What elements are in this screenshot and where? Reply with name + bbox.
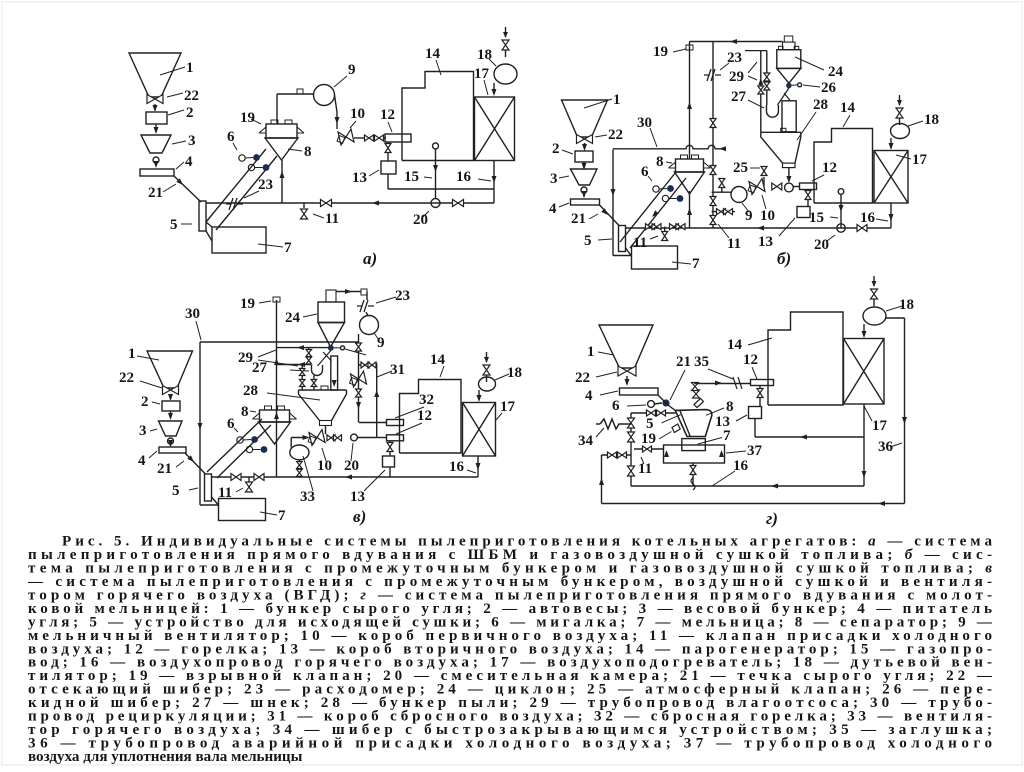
- flange (v): [361, 289, 367, 295]
- vesovoy bunker 3 (v): [159, 421, 183, 436]
- bila 19 flap (g): [672, 424, 680, 433]
- leader 28 (v): [267, 393, 320, 400]
- leader 8 (g): [706, 408, 724, 415]
- stub valve (b): [721, 188, 723, 192]
- leader 21 (g): [670, 370, 685, 400]
- stub 25 (b): [763, 177, 765, 187]
- parogenerator 14 (v): [400, 380, 462, 454]
- leader 21 (b): [589, 214, 598, 219]
- wire fan->36 (g): [885, 317, 905, 319]
- svg-text:2: 2: [552, 141, 560, 157]
- svg-text:19: 19: [653, 44, 668, 60]
- stub left (g): [602, 454, 632, 456]
- wire to 13 (v): [389, 451, 391, 456]
- separator 8 (a): [259, 120, 304, 160]
- leader 36 (g): [890, 443, 902, 447]
- leader 11 (g): [641, 457, 644, 464]
- arrow into 4 (a): [154, 161, 159, 168]
- svg-text:34: 34: [578, 433, 594, 449]
- valve bottom a (v): [231, 474, 241, 481]
- leader 30 (b): [650, 128, 657, 147]
- svg-text:8: 8: [304, 144, 312, 160]
- leader 13 (v): [364, 470, 385, 491]
- leader 10 (v): [322, 448, 326, 461]
- arrow up on sep drop (a): [280, 171, 285, 178]
- svg-text:20: 20: [413, 212, 428, 228]
- drop V3 shnek->bunker (v): [313, 376, 315, 391]
- tab left on 24 (b): [779, 46, 784, 49]
- bunker 28 right (v): [332, 390, 347, 421]
- valve on 33 stem a (v): [297, 462, 303, 469]
- wire shahta to separator right (a): [216, 156, 277, 230]
- arrow left sec air (g): [800, 435, 807, 440]
- svg-text:а): а): [363, 249, 377, 268]
- tsiklon 24 body (b): [777, 50, 801, 69]
- valve manifold 3 (g): [628, 466, 635, 476]
- svg-text:25: 25: [733, 160, 748, 176]
- tab right on 24 (b): [794, 46, 799, 49]
- svg-text:36: 36: [878, 439, 894, 455]
- svg-text:21: 21: [148, 185, 163, 201]
- leader 5 (b): [598, 239, 612, 240]
- bunker pyli 28 top (b): [761, 131, 801, 133]
- small valve pair a-2 (a): [375, 135, 384, 141]
- valve pair m2 (g): [657, 410, 666, 416]
- svg-text:8: 8: [656, 154, 664, 170]
- valve on sbros (v): [356, 343, 362, 351]
- wire to 13 (b): [807, 199, 809, 206]
- svg-text:18: 18: [924, 112, 939, 128]
- leader 3 (v): [150, 429, 157, 431]
- bunker 28 left (v): [299, 390, 320, 421]
- gazoprovod 15 (b): [840, 194, 842, 228]
- arrow right into 10 (v): [303, 435, 310, 440]
- ventilyator 9 (v): [360, 316, 379, 335]
- tsiklon 24 body (v): [318, 302, 345, 323]
- valve manifold 1 (g): [628, 418, 635, 428]
- svg-text:8: 8: [726, 399, 734, 415]
- arrow into 2 (b): [582, 144, 587, 151]
- wire to 13 (g): [759, 397, 761, 406]
- parogenerator 14 (g): [768, 312, 843, 405]
- leader 17 (g): [864, 406, 872, 421]
- svg-text:11: 11: [218, 485, 232, 501]
- chute to duct 28 (b): [784, 93, 791, 101]
- arrow left 29 upper (v): [297, 345, 304, 350]
- vlagootsos header (b): [745, 50, 767, 52]
- svg-text:23: 23: [395, 288, 410, 304]
- shnek 27 (b): [767, 105, 779, 117]
- valve under 12 (a): [385, 144, 391, 153]
- svg-text:3: 3: [550, 171, 558, 187]
- svg-text:21: 21: [571, 211, 586, 227]
- arrow into 4 (g): [625, 379, 630, 386]
- shahta left (b): [620, 172, 676, 242]
- leader 30 (v): [196, 321, 201, 340]
- svg-text:3: 3: [139, 423, 147, 439]
- melnichnyi ventilyator 9 (b): [731, 187, 747, 203]
- leader 15 (a): [424, 177, 432, 178]
- gorelka 12 (a): [385, 134, 411, 142]
- arrow into 17 top (a): [492, 89, 497, 96]
- svg-text:20: 20: [814, 237, 829, 253]
- leader 21 (v): [176, 461, 184, 467]
- svg-text:1: 1: [587, 344, 595, 360]
- valve pair v2 (v): [334, 435, 342, 441]
- leader 22 (a): [167, 93, 183, 97]
- tsiklon cone (b): [777, 68, 801, 83]
- svg-text:4: 4: [549, 201, 557, 217]
- tsiklon chimney base (b): [783, 42, 796, 50]
- wire fan->10 (a): [335, 95, 338, 112]
- arrow left return (g): [771, 484, 778, 489]
- leader 4 (b): [559, 203, 569, 207]
- vzryvnoy klapan line 19 (v): [276, 300, 278, 477]
- valve 11 on vertical (b): [710, 216, 716, 225]
- svg-text:7: 7: [278, 508, 286, 524]
- truboprovod holodnogo vozduha 37 box (g): [664, 445, 725, 463]
- tab 28 (v): [321, 386, 328, 390]
- leader 29 (v): [258, 350, 298, 366]
- truboprovod 30 left (v): [199, 342, 201, 505]
- leader 7 (g): [698, 438, 722, 445]
- svg-text:28: 28: [813, 97, 828, 113]
- arrow into 17 (v): [477, 395, 482, 402]
- wire 22->4 (g): [626, 376, 628, 384]
- ustroystvo sushki 5 (v): [205, 474, 212, 501]
- dutevoy ventilyator 18 (a): [494, 64, 517, 84]
- arrow down on 30 (b): [611, 189, 616, 196]
- svg-text:4: 4: [138, 453, 146, 469]
- parogenerator 14 (a): [402, 72, 474, 161]
- wire to 23 (v): [366, 292, 368, 301]
- wire valve->13 (a): [387, 152, 389, 161]
- leader 6 (g): [627, 405, 646, 406]
- svg-text:12: 12: [822, 160, 837, 176]
- valve on mixing line right (a): [453, 200, 464, 207]
- leader 9 (a): [334, 76, 347, 87]
- wire 13 down (g): [754, 419, 756, 438]
- vlagootsos line upper 29 (v): [277, 347, 328, 349]
- leader 23 (v): [376, 297, 396, 303]
- arrow left bottom line (b): [757, 226, 764, 231]
- suction valve above 18 (b): [896, 95, 903, 125]
- wire 16 (b): [890, 203, 892, 228]
- arrow down 16 (b): [889, 214, 894, 221]
- arrow down 15 (a): [433, 165, 438, 172]
- arrow left lower (g): [878, 501, 885, 506]
- leader 19 (b): [673, 49, 686, 52]
- leader 19 (a): [251, 119, 261, 124]
- svg-text:воздуха для уплотнения вала ме: воздуха для уплотнения вала мельницы: [28, 749, 303, 765]
- arrow on techka (a): [176, 178, 184, 186]
- svg-text:5: 5: [172, 483, 180, 499]
- valve pair s1 (v): [361, 362, 369, 368]
- svg-text:14: 14: [727, 337, 743, 353]
- arrow up on sep drop (b): [687, 208, 692, 215]
- leader 16 (a): [478, 179, 491, 181]
- leader 28 (b): [797, 112, 816, 140]
- techka 21 (v): [185, 453, 206, 474]
- wire sep bottom down (b): [689, 191, 691, 228]
- arrow right top (v): [345, 289, 352, 294]
- arrow into 10 (a): [335, 117, 340, 124]
- svg-text:6: 6: [227, 416, 235, 432]
- leader 17 (b): [896, 155, 911, 159]
- dutevoy ventilyator 18 (b): [891, 124, 910, 139]
- rashodomer 23 (b): [704, 69, 721, 81]
- valve pair L1 (g): [608, 452, 617, 458]
- svg-text:6: 6: [612, 398, 620, 414]
- wire 23->9 (v): [366, 312, 368, 316]
- wire 23/25 vertical (b): [712, 42, 714, 229]
- wire 5->7 (a): [206, 231, 212, 241]
- arrow down 16 (a): [492, 176, 497, 183]
- korob vtorichnogo vozduha 13 (b): [797, 207, 810, 218]
- valve before feeder (b): [772, 183, 782, 190]
- wire 28 outlet down (v): [325, 426, 327, 435]
- leader 14 (b): [843, 115, 850, 127]
- ustroystvo sushki 5 (b): [619, 226, 626, 252]
- svg-text:19: 19: [240, 296, 255, 312]
- leader 14 (g): [748, 338, 772, 345]
- wire 5->7 (b): [626, 248, 632, 256]
- arrow left on 30 top (b): [719, 146, 726, 151]
- shiber 22 (v): [163, 386, 179, 395]
- svg-text:9: 9: [348, 62, 356, 78]
- stub to riser (v): [359, 364, 377, 366]
- tsiklon chimney top (b): [784, 36, 793, 42]
- svg-text:11: 11: [727, 236, 741, 252]
- svg-text:22: 22: [184, 88, 199, 104]
- leader 23 (a): [244, 191, 259, 198]
- leader 7 (v): [260, 512, 277, 515]
- leader 11 (a): [313, 214, 324, 218]
- svg-text:16: 16: [456, 169, 472, 185]
- bottom line (v): [212, 476, 479, 478]
- leader 26 (v): [345, 349, 366, 355]
- left manifold (g): [630, 413, 632, 486]
- flange on 19 line (b): [686, 45, 693, 50]
- vzryvnoy klapan line 19 (b): [689, 42, 691, 160]
- leader 15 (b): [830, 217, 838, 218]
- valve pair v1 (v): [327, 435, 335, 441]
- svg-text:14: 14: [840, 100, 856, 116]
- shiber 22 (b): [577, 135, 593, 144]
- stub 11 (v): [248, 477, 250, 482]
- bunker 1 (b): [562, 100, 608, 137]
- valve on 29b (b): [764, 73, 770, 81]
- wire bunker->avtovesy (a): [154, 104, 156, 110]
- arrow up left drop (g): [599, 478, 604, 485]
- valve pair s2 (v): [368, 362, 376, 368]
- svg-text:5: 5: [646, 416, 654, 432]
- leader 20 (a): [423, 211, 429, 217]
- svg-text:27: 27: [731, 89, 747, 105]
- leader 8 (b): [666, 162, 672, 163]
- pitatel 4 (b): [571, 199, 600, 205]
- arrow left 29 lower (v): [298, 362, 305, 367]
- leader 2 (a): [168, 110, 184, 115]
- wire to fan 9 lower (b): [712, 211, 735, 213]
- svg-text:11: 11: [325, 211, 339, 227]
- leader 17 (v): [496, 413, 502, 420]
- riser to gorelka (v): [376, 363, 378, 438]
- svg-text:22: 22: [608, 127, 623, 143]
- leader 1 (v): [137, 356, 159, 360]
- ventilyator 18 (v): [479, 377, 496, 391]
- leader 3 (a): [172, 141, 186, 144]
- leader 18 (v): [495, 374, 509, 380]
- svg-text:21: 21: [676, 354, 691, 370]
- valve stub 37 (g): [643, 446, 652, 452]
- arrow up 29a (b): [758, 78, 763, 85]
- leader 34 (g): [596, 428, 604, 437]
- bunker 1 (v): [147, 351, 193, 388]
- arrow into 3 (b): [582, 163, 587, 170]
- svg-text:23: 23: [258, 177, 273, 193]
- figure caption block: [27, 534, 993, 766]
- leader 24 (b): [795, 57, 824, 70]
- leader 1 (b): [584, 99, 612, 108]
- leader 27 (b): [748, 100, 764, 108]
- truboprovod vlagootsosa 29a (b): [760, 51, 762, 133]
- wire 13 down (v): [389, 467, 391, 477]
- bunker B1 (diagram a, сырой уголь 1): [129, 53, 181, 97]
- leader 18 (g): [886, 306, 902, 311]
- valve mid on vertical (b): [710, 197, 716, 206]
- valve under 12 (v): [387, 443, 393, 452]
- svg-text:33: 33: [300, 489, 315, 505]
- leader 26 (b): [803, 85, 820, 87]
- svg-text:31: 31: [390, 362, 405, 378]
- stub to burner line (g): [694, 383, 696, 386]
- vozduhopodogrevatel 17 (a): [475, 97, 515, 161]
- valve 11 pair b (b): [652, 224, 661, 230]
- leader 32 (v): [395, 407, 424, 418]
- zaglushka 35 (g): [733, 377, 742, 389]
- melnichnyi ventilyator 9 (a): [314, 85, 335, 106]
- arrow down 15 (b): [839, 205, 844, 212]
- migalka 6 flaps (b): [653, 185, 684, 202]
- korob 13 (v): [383, 456, 395, 467]
- svg-text:1: 1: [613, 92, 621, 108]
- wire 17 bottom down (g): [863, 404, 865, 486]
- leader 10 (a): [350, 121, 356, 128]
- wire sep top up (a): [276, 94, 278, 124]
- valve on mixing line left (a): [321, 200, 332, 207]
- svg-text:13: 13: [758, 234, 773, 250]
- arrow up into 37 right (g): [719, 450, 724, 457]
- wire 30 bottom to mill (v): [200, 504, 219, 506]
- leader 17 (a): [484, 80, 488, 95]
- wire fan18 into 17 (a): [493, 83, 495, 94]
- leader 23 (b): [720, 63, 729, 70]
- arrow 16 (v): [476, 463, 481, 470]
- wire top suction line (b): [690, 41, 783, 43]
- handle circle 26 (b): [798, 83, 802, 87]
- arrow down sbros (v): [356, 402, 361, 409]
- leader 5 (g): [662, 415, 681, 423]
- svg-text:15: 15: [404, 169, 419, 185]
- svg-text:37: 37: [747, 443, 763, 459]
- wire fan->17 (g): [863, 324, 865, 336]
- hot air return line lower (g): [602, 503, 905, 505]
- migalka 6 flaps (v): [237, 436, 268, 453]
- chute to duct (v): [323, 352, 332, 361]
- mill bottom box 7 (g): [682, 439, 706, 451]
- leader 6 (b): [648, 176, 652, 181]
- valve right of 20 (b): [857, 225, 867, 232]
- wire to 32 (v): [359, 422, 387, 424]
- rashodomer 23 (a): [226, 198, 243, 210]
- arrow up riser (v): [374, 390, 379, 397]
- migalka under 3 (a): [153, 157, 159, 163]
- wire fan18->17 (b): [890, 138, 892, 148]
- vesovoy bunker 3 (a): [141, 135, 171, 153]
- svg-text:18: 18: [507, 365, 522, 381]
- svg-text:11: 11: [633, 235, 647, 251]
- leader 10 (b): [762, 195, 766, 209]
- wire 20->12 (v): [357, 437, 376, 439]
- stub (g): [759, 386, 761, 389]
- secondary air line from 17 (g): [755, 436, 864, 438]
- svg-text:10: 10: [350, 106, 365, 122]
- wire 13 down (a): [387, 174, 389, 189]
- leader 11b (b): [718, 224, 729, 238]
- wire (v): [170, 444, 172, 446]
- parogenerator 14 (b): [814, 129, 873, 204]
- leader 8 (v): [250, 411, 256, 412]
- valve 11 pair a (b): [646, 224, 655, 230]
- shiber 22 (a): [147, 95, 163, 104]
- melnitsa 7 (a): [212, 227, 266, 253]
- leader 4 (v): [149, 451, 157, 458]
- wire 5->7 (v): [212, 497, 219, 505]
- wire 2->3 (v): [170, 411, 172, 418]
- leader 31 (v): [377, 371, 392, 377]
- arrow into 3 (a): [154, 127, 159, 134]
- svg-text:10: 10: [317, 458, 332, 474]
- vlagootsos line lower 29 (v): [277, 364, 312, 366]
- smesitelnaya kamera 20 (b): [837, 224, 845, 232]
- wire 22->2 (v): [170, 394, 172, 399]
- leader 27 (v): [290, 370, 309, 371]
- leader 18 (b): [908, 121, 923, 126]
- wire 2->3 (b): [583, 162, 585, 168]
- valve V1a (v): [306, 350, 312, 357]
- arrow left bottom (v): [345, 475, 352, 480]
- wire 3->4 (a): [155, 163, 157, 166]
- arrow up 2 on 19 line (v): [274, 412, 279, 419]
- leader 6 (a): [233, 143, 237, 150]
- bunker 28 outlet (v): [320, 421, 332, 426]
- vozduhopodogrevatel 17 (g): [844, 339, 885, 405]
- wire cyclone top right (v): [336, 291, 361, 293]
- arrow up on 19 line (v): [274, 358, 279, 365]
- atmosferny klapan 25 (b): [761, 167, 767, 176]
- leader 11 (b): [650, 236, 658, 239]
- valve bottom b (v): [254, 474, 264, 481]
- chute to shnek (v): [318, 351, 331, 367]
- svg-text:6: 6: [641, 164, 649, 180]
- arrow into 3 (v): [168, 413, 173, 420]
- svg-text:1: 1: [186, 60, 194, 76]
- migalka 6 dot (g): [662, 399, 669, 406]
- leader 7 (a): [258, 244, 283, 247]
- leader 2 (v): [152, 402, 160, 404]
- wire 6 (g): [654, 403, 662, 404]
